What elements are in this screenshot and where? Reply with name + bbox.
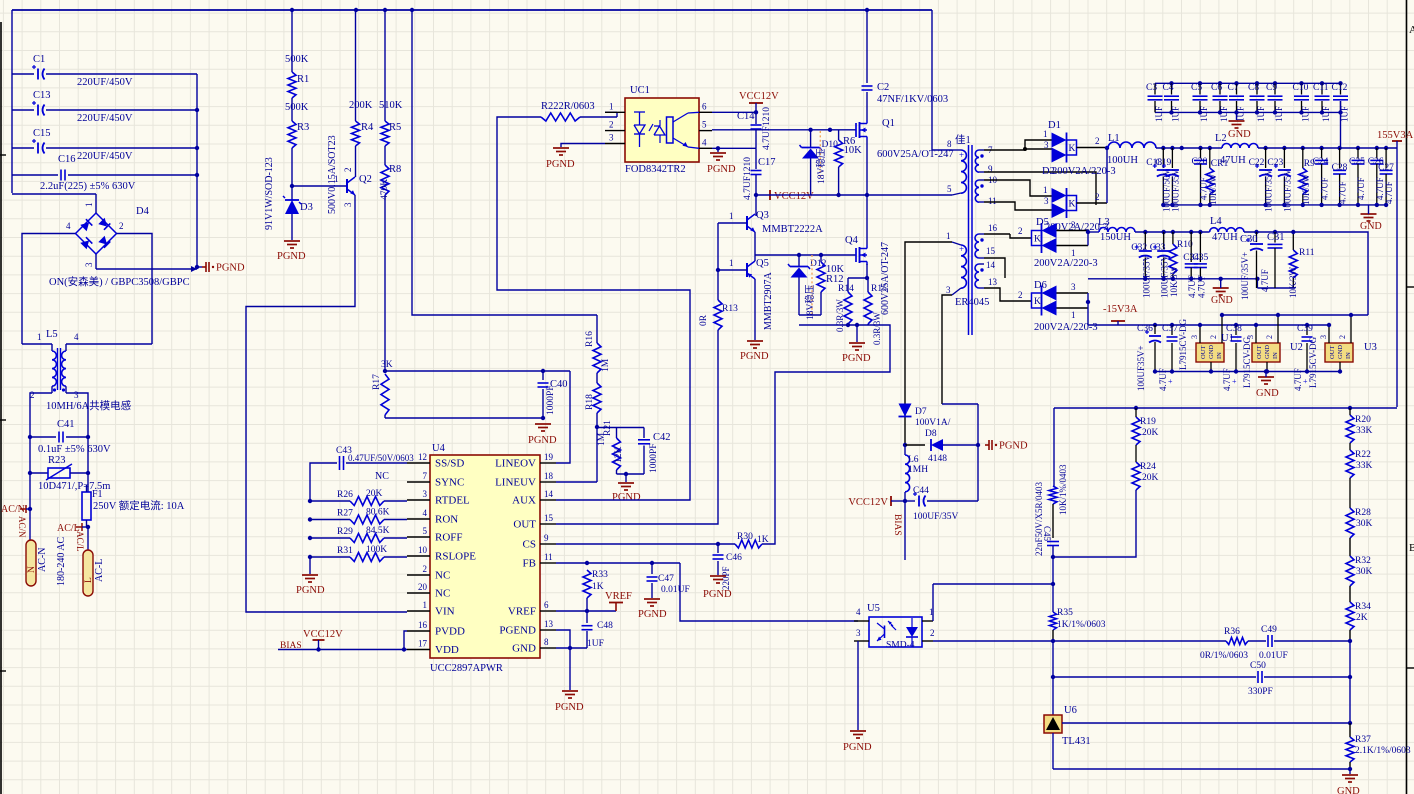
svg-text:D6: D6 (1034, 280, 1047, 291)
svg-text:U2: U2 (1290, 342, 1303, 353)
svg-text:R26: R26 (337, 490, 353, 500)
svg-text:R20: R20 (1355, 415, 1371, 425)
svg-text:1UF: 1UF (1154, 106, 1164, 122)
svg-text:PGEND: PGEND (499, 625, 536, 637)
svg-text:R35: R35 (1057, 608, 1073, 618)
svg-text:600V25A/OT-247: 600V25A/OT-247 (880, 242, 891, 315)
svg-text:200V2A/220-3: 200V2A/220-3 (1034, 258, 1098, 269)
svg-text:100UF/35V: 100UF/35V (1141, 254, 1151, 298)
svg-text:RON: RON (435, 514, 458, 526)
svg-text:150UH: 150UH (1100, 232, 1131, 243)
svg-text:2: 2 (1018, 226, 1023, 236)
svg-text:L7915CV-DG: L7915CV-DG (1178, 318, 1188, 370)
svg-text:4.7UF: 4.7UF (1222, 368, 1232, 391)
svg-text:510K: 510K (379, 100, 403, 111)
svg-text:GND: GND (1211, 295, 1233, 306)
svg-text:C43: C43 (336, 446, 352, 456)
svg-text:VCC12V: VCC12V (774, 191, 814, 202)
svg-text:80.6K: 80.6K (366, 508, 390, 518)
svg-text:AC-L: AC-L (94, 559, 105, 582)
svg-text:TL431: TL431 (1062, 736, 1091, 747)
svg-text:4.7UF: 4.7UF (1320, 177, 1330, 200)
svg-text:330PF: 330PF (1248, 687, 1273, 697)
svg-text:GND: GND (1208, 345, 1215, 359)
svg-text:8: 8 (544, 637, 549, 647)
svg-text:C49: C49 (1261, 625, 1277, 635)
svg-text:D8: D8 (925, 429, 937, 439)
svg-text:C25: C25 (1349, 157, 1365, 167)
svg-text:PVDD: PVDD (435, 626, 465, 638)
svg-text:RSLOPE: RSLOPE (435, 551, 476, 563)
svg-text:GND: GND (1360, 221, 1382, 232)
svg-text:R14: R14 (838, 284, 854, 294)
svg-text:PGND: PGND (546, 159, 575, 170)
svg-text:L6: L6 (908, 455, 919, 465)
svg-text:5: 5 (702, 120, 707, 130)
svg-text:MMBT2907A: MMBT2907A (763, 271, 774, 330)
svg-text:1: 1 (37, 332, 42, 342)
svg-text:500K: 500K (285, 54, 309, 65)
svg-text:K: K (1069, 144, 1076, 154)
svg-text:18: 18 (544, 471, 554, 481)
svg-text:2: 2 (1018, 290, 1023, 300)
svg-text:47UH: 47UH (1212, 232, 1238, 243)
svg-text:100V1A/: 100V1A/ (915, 418, 951, 428)
svg-text:L1: L1 (1108, 133, 1120, 144)
svg-text:LINEUV: LINEUV (495, 477, 536, 489)
svg-text:C23: C23 (1267, 158, 1283, 168)
svg-text:0.01UF: 0.01UF (661, 585, 690, 595)
svg-text:11: 11 (988, 196, 997, 206)
svg-text:C48: C48 (597, 621, 613, 631)
svg-text:L5: L5 (46, 329, 58, 340)
svg-text:R15: R15 (871, 284, 887, 294)
svg-text:2K: 2K (1356, 613, 1368, 623)
svg-text:6: 6 (702, 101, 707, 111)
svg-text:R32: R32 (1355, 556, 1371, 566)
svg-text:1: 1 (1071, 248, 1076, 258)
svg-text:C9: C9 (1266, 83, 1277, 93)
svg-text:OUT: OUT (1329, 346, 1336, 359)
svg-text:SMD-4: SMD-4 (886, 641, 915, 651)
svg-text:13: 13 (544, 619, 554, 629)
svg-text:PGND: PGND (555, 702, 584, 713)
svg-text:1M: 1M (601, 358, 611, 372)
svg-text:Q1: Q1 (882, 118, 895, 129)
svg-text:4: 4 (66, 221, 71, 231)
svg-text:10MH/6A共模电感: 10MH/6A共模电感 (46, 399, 132, 412)
svg-text:C28: C28 (1332, 163, 1348, 173)
svg-text:UCC2897APWR: UCC2897APWR (430, 663, 503, 674)
svg-text:30K: 30K (1356, 519, 1373, 529)
svg-text:10K/3W: 10K/3W (1301, 174, 1311, 206)
svg-text:K: K (1034, 235, 1041, 245)
svg-text:20K: 20K (366, 489, 383, 499)
svg-text:CR1: CR1 (1211, 159, 1229, 169)
svg-text:0.3R/3W: 0.3R/3W (835, 299, 845, 332)
svg-text:200K: 200K (349, 100, 373, 111)
svg-text:1000PF: 1000PF (546, 385, 556, 415)
svg-text:0.3R/3W: 0.3R/3W (872, 312, 882, 345)
svg-text:MMBT2222A: MMBT2222A (762, 224, 823, 235)
svg-text:U5: U5 (867, 603, 880, 614)
svg-text:GND: GND (1228, 129, 1251, 140)
svg-text:2: 2 (1338, 335, 1347, 339)
svg-text:C10: C10 (1293, 83, 1309, 93)
svg-text:4.7UF1210: 4.7UF1210 (743, 157, 753, 200)
svg-text:C13: C13 (33, 90, 51, 101)
svg-text:GND: GND (1337, 345, 1344, 359)
svg-text:U6: U6 (1064, 705, 1077, 716)
svg-text:3: 3 (1071, 220, 1076, 230)
svg-text:NC: NC (435, 570, 450, 582)
svg-text:R33: R33 (592, 570, 608, 580)
svg-text:2: 2 (930, 628, 935, 638)
svg-text:A: A (1409, 24, 1414, 36)
svg-text:2: 2 (1265, 335, 1274, 339)
svg-text:12: 12 (418, 452, 427, 462)
svg-text:250V 额定电流: 10A: 250V 额定电流: 10A (93, 499, 185, 512)
svg-text:R36: R36 (1224, 627, 1240, 637)
svg-text:C50: C50 (1250, 661, 1266, 671)
svg-text:4.7UF: 4.7UF (1260, 269, 1270, 292)
svg-text:84.5K: 84.5K (366, 526, 390, 536)
svg-text:3: 3 (946, 285, 951, 295)
svg-text:18V稳压: 18V稳压 (815, 148, 827, 184)
svg-text:C4: C4 (1163, 83, 1174, 93)
svg-text:L7915CV-DG: L7915CV-DG (1242, 336, 1252, 388)
svg-text:1MH: 1MH (908, 465, 928, 475)
svg-text:C30: C30 (1240, 234, 1258, 245)
svg-text:3: 3 (84, 262, 94, 267)
svg-text:U1: U1 (1221, 333, 1234, 344)
svg-text:17: 17 (418, 639, 428, 649)
svg-text:PGND: PGND (999, 441, 1028, 452)
svg-text:4: 4 (74, 332, 79, 342)
svg-text:R1: R1 (297, 74, 309, 85)
svg-text:C44: C44 (913, 486, 929, 496)
svg-text:220PF: 220PF (721, 566, 731, 590)
svg-text:0.1uF ±5% 630V: 0.1uF ±5% 630V (38, 444, 111, 455)
svg-text:1: 1 (1071, 310, 1076, 320)
svg-text:R3: R3 (297, 122, 309, 133)
svg-text:5: 5 (947, 184, 952, 194)
svg-text:C2: C2 (877, 82, 889, 93)
svg-text:C47: C47 (658, 574, 674, 584)
svg-text:L3: L3 (1098, 217, 1110, 228)
svg-text:R16: R16 (585, 331, 595, 347)
svg-text:R11: R11 (1299, 248, 1315, 258)
svg-text:R24: R24 (1140, 462, 1156, 472)
svg-text:C15: C15 (33, 128, 51, 139)
svg-text:Q5: Q5 (756, 258, 769, 269)
svg-text:U4: U4 (432, 443, 446, 454)
svg-text:VCC12V: VCC12V (303, 629, 343, 640)
svg-text:10K: 10K (844, 145, 863, 156)
svg-text:10K/3W: 10K/3W (1169, 266, 1179, 298)
svg-text:VCC12V: VCC12V (848, 497, 888, 508)
svg-text:47NF/1KV/0603: 47NF/1KV/0603 (877, 94, 948, 105)
svg-text:0R/1%/0603: 0R/1%/0603 (1200, 651, 1248, 661)
svg-text:1000PF: 1000PF (649, 443, 659, 473)
svg-text:N: N (27, 566, 37, 573)
svg-text:OUT: OUT (513, 519, 536, 531)
svg-text:4.7UF1210: 4.7UF1210 (762, 107, 772, 150)
svg-text:R21: R21 (603, 420, 613, 436)
svg-text:C27: C27 (1378, 163, 1394, 173)
svg-text:20K: 20K (1142, 473, 1159, 483)
svg-text:3: 3 (74, 390, 79, 400)
svg-text:Q2: Q2 (359, 174, 372, 185)
svg-text:R222R/0603: R222R/0603 (541, 101, 595, 112)
svg-text:33K: 33K (1356, 426, 1373, 436)
svg-text:1: 1 (1043, 185, 1048, 195)
svg-text:NC: NC (375, 471, 389, 482)
svg-text:16: 16 (418, 620, 428, 630)
svg-text:4: 4 (856, 607, 861, 617)
svg-text:GND: GND (512, 643, 536, 655)
svg-text:D4: D4 (136, 206, 150, 217)
svg-text:3: 3 (423, 489, 428, 499)
svg-text:C39: C39 (1297, 324, 1313, 334)
svg-text:100UF35V+: 100UF35V+ (1136, 345, 1146, 391)
svg-text:LINEOV: LINEOV (495, 458, 536, 470)
svg-text:U3: U3 (1364, 342, 1377, 353)
svg-text:C35: C35 (1192, 253, 1208, 263)
svg-text:PGND: PGND (707, 164, 736, 175)
svg-text:L4: L4 (1210, 216, 1222, 227)
svg-text:4.7UF: 4.7UF (1293, 368, 1303, 391)
svg-text:R4: R4 (361, 122, 374, 133)
svg-text:PGND: PGND (843, 742, 872, 753)
svg-text:22nF50V/X5R/0403: 22nF50V/X5R/0403 (1034, 481, 1044, 556)
svg-text:2: 2 (119, 221, 124, 231)
svg-text:100UF/35V: 100UF/35V (913, 512, 959, 522)
svg-text:C1: C1 (33, 54, 45, 65)
svg-text:PGND: PGND (528, 435, 557, 446)
svg-text:4.7UF: 4.7UF (1158, 368, 1168, 391)
svg-text:15: 15 (986, 246, 996, 256)
svg-text:4: 4 (423, 508, 428, 518)
svg-text:19: 19 (544, 452, 554, 462)
svg-text:3: 3 (1319, 335, 1328, 339)
svg-text:2: 2 (1095, 136, 1100, 146)
svg-text:2: 2 (609, 120, 614, 130)
svg-text:R28: R28 (1355, 508, 1371, 518)
svg-text:NC: NC (435, 588, 450, 600)
svg-text:33K: 33K (1356, 461, 1373, 471)
svg-text:14: 14 (544, 489, 554, 499)
svg-text:C31: C31 (1267, 232, 1285, 243)
svg-text:14: 14 (986, 260, 996, 270)
svg-text:+: + (1168, 377, 1173, 386)
svg-text:C24: C24 (1313, 157, 1329, 167)
svg-text:7: 7 (423, 471, 428, 481)
svg-text:100UH: 100UH (1107, 155, 1138, 166)
svg-text:1K: 1K (757, 535, 769, 545)
svg-text:0.01UF: 0.01UF (1259, 651, 1288, 661)
svg-text:ER4045: ER4045 (955, 297, 989, 308)
svg-text:AC/L: AC/L (75, 531, 85, 552)
svg-text:FB: FB (523, 558, 536, 570)
svg-text:220UF/450V: 220UF/450V (77, 77, 133, 88)
svg-text:91V1W/SOD-123: 91V1W/SOD-123 (264, 157, 275, 230)
svg-text:500V0.15A/SOT23: 500V0.15A/SOT23 (327, 135, 338, 214)
svg-text:ROFF: ROFF (435, 532, 463, 544)
svg-text:C5: C5 (1191, 83, 1202, 93)
svg-text:13: 13 (988, 277, 998, 287)
svg-text:C14: C14 (737, 111, 755, 122)
svg-text:2.2uF(225) ±5% 630V: 2.2uF(225) ±5% 630V (40, 181, 136, 192)
svg-text:C3: C3 (1146, 83, 1157, 93)
svg-text:Q3: Q3 (756, 210, 769, 221)
svg-text:20K: 20K (1142, 428, 1159, 438)
svg-text:0.47UF/50V/0603: 0.47UF/50V/0603 (348, 453, 414, 463)
svg-text:C16: C16 (58, 154, 76, 165)
svg-text:1: 1 (609, 101, 614, 111)
svg-text:R27: R27 (337, 509, 353, 519)
svg-text:3: 3 (609, 133, 614, 143)
svg-text:R34: R34 (1355, 602, 1371, 612)
svg-text:PGND: PGND (703, 589, 732, 600)
svg-text:C22: C22 (1249, 158, 1265, 168)
svg-text:C17: C17 (758, 157, 776, 168)
svg-text:Q4: Q4 (845, 235, 859, 246)
svg-text:C20: C20 (1192, 157, 1208, 167)
svg-text:K: K (1034, 297, 1041, 307)
svg-text:9: 9 (544, 533, 549, 543)
svg-text:R18: R18 (585, 394, 595, 410)
svg-text:2: 2 (343, 168, 353, 173)
svg-text:AC-N: AC-N (37, 548, 48, 572)
svg-text:PGND: PGND (277, 251, 306, 262)
svg-text:SS/SD: SS/SD (435, 458, 464, 470)
svg-text:1: 1 (423, 600, 428, 610)
svg-text:C36: C36 (1137, 324, 1153, 334)
svg-text:5: 5 (423, 526, 428, 536)
svg-text:1: 1 (1043, 129, 1048, 139)
svg-text:1K/1%/0603: 1K/1%/0603 (1057, 620, 1106, 630)
svg-text:PGND: PGND (740, 351, 769, 362)
svg-text:CS: CS (523, 539, 536, 551)
svg-text:PGND: PGND (638, 609, 667, 620)
svg-text:IN: IN (1216, 352, 1223, 359)
svg-text:GND: GND (1337, 786, 1360, 794)
svg-text:1: 1 (729, 211, 734, 221)
svg-text:15: 15 (544, 513, 554, 523)
svg-text:R8: R8 (389, 164, 401, 175)
svg-text:C42: C42 (653, 432, 671, 443)
svg-text:500K: 500K (285, 102, 309, 113)
svg-text:AUX: AUX (512, 495, 536, 507)
svg-text:AC/N: AC/N (17, 516, 27, 538)
svg-text:C41: C41 (57, 419, 75, 430)
svg-text:10K/3W: 10K/3W (1288, 267, 1298, 299)
svg-text:3: 3 (1044, 140, 1049, 150)
svg-text:R13: R13 (722, 304, 738, 314)
svg-text:R5: R5 (389, 122, 401, 133)
svg-text:IN: IN (1272, 352, 1279, 359)
svg-text:3: 3 (1071, 282, 1076, 292)
svg-text:PGND: PGND (296, 585, 325, 596)
svg-text:PGND: PGND (612, 492, 641, 503)
svg-text:C32: C32 (1131, 243, 1147, 253)
svg-text:4148: 4148 (928, 454, 947, 464)
svg-text:C8: C8 (1248, 83, 1259, 93)
svg-text:R37: R37 (1355, 735, 1371, 745)
svg-text:+: + (1232, 377, 1237, 386)
svg-text:R30: R30 (737, 532, 753, 542)
svg-text:220UF/450V: 220UF/450V (77, 151, 133, 162)
svg-text:1: 1 (729, 258, 734, 268)
svg-text:R22: R22 (1355, 450, 1371, 460)
svg-text:B: B (1409, 542, 1414, 554)
svg-text:2: 2 (1209, 335, 1218, 339)
svg-text:佳1: 佳1 (955, 133, 971, 146)
svg-text:30K: 30K (1356, 567, 1373, 577)
svg-text:OUT: OUT (1200, 346, 1207, 359)
svg-text:UC1: UC1 (630, 85, 650, 96)
svg-text:VCC12V: VCC12V (739, 91, 779, 102)
svg-text:+: + (959, 244, 964, 254)
svg-text:155V3A: 155V3A (1377, 130, 1414, 141)
svg-text:3: 3 (1044, 196, 1049, 206)
svg-text:PGND: PGND (842, 353, 871, 364)
svg-text:C46: C46 (726, 553, 742, 563)
svg-text:GND: GND (1256, 388, 1279, 399)
svg-text:R17: R17 (372, 374, 382, 390)
svg-text:VIN: VIN (435, 606, 455, 618)
svg-text:4.7UF: 4.7UF (1356, 177, 1366, 200)
svg-text:100K: 100K (366, 545, 387, 555)
svg-text:16: 16 (988, 223, 998, 233)
svg-text:R31: R31 (337, 546, 353, 556)
svg-text:VREF: VREF (508, 606, 536, 618)
svg-text:0R: 0R (699, 314, 709, 326)
svg-text:1K: 1K (592, 582, 604, 592)
svg-text:2.1K/1%/0603: 2.1K/1%/0603 (1355, 746, 1411, 756)
svg-text:C7: C7 (1228, 83, 1239, 93)
svg-text:C11: C11 (1313, 83, 1329, 93)
svg-text:C12: C12 (1332, 83, 1348, 93)
svg-text:VREF: VREF (605, 591, 632, 602)
svg-text:+: + (959, 150, 964, 160)
svg-text:D7: D7 (915, 407, 927, 417)
svg-text:180-240 AC: 180-240 AC (56, 537, 67, 587)
svg-text:2: 2 (1095, 192, 1100, 202)
svg-text:4.7UF: 4.7UF (1384, 181, 1394, 204)
svg-text:D10: D10 (822, 140, 839, 150)
svg-text:FOD8342TR2: FOD8342TR2 (625, 164, 686, 175)
svg-text:OUT: OUT (1256, 346, 1263, 359)
svg-text:R23: R23 (48, 455, 66, 466)
svg-text:3: 3 (1190, 335, 1199, 339)
svg-text:GND: GND (1264, 345, 1271, 359)
svg-text:12K: 12K (614, 447, 624, 464)
svg-text:100UF/35V+: 100UF/35V+ (1240, 252, 1250, 300)
svg-text:L: L (84, 577, 94, 583)
svg-text:BIAS: BIAS (892, 514, 902, 536)
svg-text:F1: F1 (92, 489, 103, 500)
svg-text:3K: 3K (381, 360, 393, 370)
svg-text:ON(安森美) / GBPC3508/GBPC: ON(安森美) / GBPC3508/GBPC (49, 275, 190, 288)
svg-text:D1: D1 (1048, 120, 1061, 131)
svg-text:200V2A/220-3: 200V2A/220-3 (1052, 166, 1116, 177)
svg-text:C19: C19 (1155, 158, 1171, 168)
svg-text:2: 2 (423, 564, 428, 574)
svg-text:C37: C37 (1162, 324, 1178, 334)
svg-text:D5: D5 (1036, 217, 1049, 228)
